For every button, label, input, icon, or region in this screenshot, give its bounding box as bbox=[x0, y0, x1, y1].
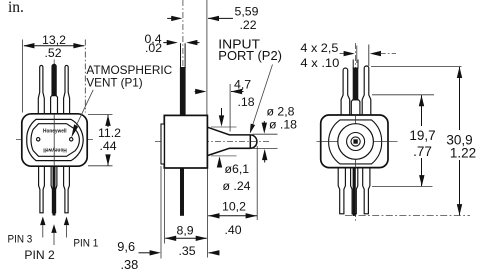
middle view dimension &#248;6,1 / &#248; .24 bbox=[211, 108, 251, 193]
right view bottom pin (right) bbox=[363, 168, 370, 214]
left view horizontal centerline bbox=[16, 138, 93, 140]
svg-text:10,2: 10,2 bbox=[222, 200, 246, 214]
middle view body bbox=[164, 115, 207, 168]
svg-text:PIN 1: PIN 1 bbox=[73, 238, 98, 250]
svg-text:ø 2,8: ø 2,8 bbox=[267, 105, 295, 119]
middle view dimension 0,4 / .02 bbox=[144, 32, 199, 55]
svg-text:9,6: 9,6 bbox=[117, 239, 135, 254]
right view small circle (port tube) bbox=[351, 137, 360, 146]
middle view mounting flange bbox=[161, 124, 164, 164]
middle view dimension 5,59 / .22 bbox=[167, 0, 258, 115]
middle view vent tube below body (dark) bbox=[180, 168, 184, 216]
svg-text:ø6,1: ø6,1 bbox=[225, 162, 250, 176]
pin 3 leader arrow bbox=[40, 217, 45, 238]
middle view dimension 8,9 / .35 bbox=[164, 169, 207, 258]
input port end cap bbox=[250, 135, 257, 148]
left view bottom pin 3 (left) bbox=[39, 166, 45, 213]
svg-text:ø .18: ø .18 bbox=[269, 118, 297, 132]
svg-text:PORT (P2): PORT (P2) bbox=[218, 49, 282, 63]
left view lid outer outline bbox=[27, 119, 83, 160]
right view dimension 30,9 / 1.22 bbox=[345, 67, 476, 216]
middle view vent tube (dark) bbox=[180, 67, 186, 116]
svg-text:.38: .38 bbox=[121, 257, 139, 272]
leader line ATMOSPHERIC VENT bbox=[76, 90, 93, 126]
pin 1 leader arrow bbox=[64, 217, 69, 238]
left view bottom pin 1 (right) bbox=[64, 166, 70, 213]
leader arrowhead at port bbox=[250, 124, 255, 134]
right view body outline bbox=[321, 115, 388, 168]
svg-text:5,59: 5,59 bbox=[235, 5, 259, 19]
svg-text:PIN 3: PIN 3 bbox=[8, 234, 33, 246]
svg-text:.22: .22 bbox=[240, 18, 257, 32]
right view bottom pin (left) bbox=[338, 168, 345, 214]
svg-text:4 x 2,5: 4 x 2,5 bbox=[300, 41, 338, 55]
leader line INPUT PORT (P2) bbox=[252, 65, 273, 129]
right view large circle (lid weld ring) bbox=[338, 124, 374, 160]
left view dimension 13,2 / .52 bbox=[23, 33, 86, 113]
svg-text:VENT (P1): VENT (P1) bbox=[86, 76, 142, 90]
label INPUT PORT (P2) bbox=[218, 37, 282, 63]
left view index hole (left) bbox=[37, 138, 40, 141]
middle view vent tube centerline bbox=[182, 0, 184, 66]
svg-text:in.: in. bbox=[8, 0, 24, 16]
left view top pin (right) bbox=[64, 65, 70, 113]
svg-text:4 x .10: 4 x .10 bbox=[300, 56, 339, 70]
right view dimension 4 x 2,5 / 4 x .10 bbox=[300, 41, 396, 70]
svg-text:.35: .35 bbox=[179, 244, 196, 258]
right view vertical centerline bbox=[355, 43, 357, 223]
left view body outline bbox=[22, 114, 87, 166]
svg-text:.77: .77 bbox=[413, 144, 432, 159]
leader arrow to vent hole P1 bbox=[71, 124, 78, 138]
svg-text:.18: .18 bbox=[238, 95, 255, 109]
svg-text:1.22: 1.22 bbox=[450, 146, 476, 161]
left view centerlines (inside body) bbox=[53, 114, 55, 166]
middle view dimension 4,7 / .18 bbox=[195, 77, 255, 131]
svg-text:Honeywell: Honeywell bbox=[43, 129, 67, 135]
pin 2 leader arrow bbox=[51, 224, 56, 245]
right view bottom vent pin (dark center) bbox=[351, 168, 358, 216]
label ATMOSPHERIC VENT (P1) bbox=[86, 63, 172, 90]
middle view dimension 9,6 / .38 bbox=[117, 166, 219, 272]
svg-text:.40: .40 bbox=[225, 223, 242, 237]
left view vertical centerline bbox=[53, 60, 55, 215]
left view atmospheric vent tube (top, dark) bbox=[51, 64, 58, 114]
middle view dimension 10,2 / .40 bbox=[207, 146, 257, 258]
svg-text:.52: .52 bbox=[44, 46, 61, 60]
svg-text:4,7: 4,7 bbox=[234, 77, 251, 91]
svg-text:Honeywell: Honeywell bbox=[43, 147, 67, 153]
middle view dimension &#248; 2,8 / &#248; .18 bbox=[253, 105, 298, 163]
right view dimension 19,7 / .77 bbox=[372, 95, 436, 187]
svg-text:.02: .02 bbox=[145, 41, 162, 55]
left view atmospheric vent hole P1 (right) bbox=[70, 138, 73, 141]
left view bottom pin 2 / vent tube (dark center) bbox=[51, 166, 57, 216]
right view port bore (dark) bbox=[353, 139, 357, 143]
left view top pin (left) bbox=[38, 65, 44, 113]
right view top pin (right) bbox=[362, 66, 371, 115]
middle view port centerline bbox=[155, 141, 270, 143]
right view crosshair inside body bbox=[321, 115, 388, 168]
right view top pin (left) bbox=[341, 68, 350, 115]
right view lid outline bbox=[329, 120, 382, 164]
svg-text:.44: .44 bbox=[100, 139, 117, 153]
right view horizontal centerline bbox=[317, 141, 398, 143]
input port cone and tube bbox=[207, 127, 250, 155]
left view dimension 11.2 / .44 bbox=[88, 114, 121, 165]
svg-text:19,7: 19,7 bbox=[409, 128, 435, 143]
svg-text:8,9: 8,9 bbox=[177, 224, 194, 238]
svg-text:13,2: 13,2 bbox=[42, 33, 66, 47]
left view lid inner outline bbox=[31, 124, 79, 157]
right view medium circle (port base) bbox=[347, 133, 365, 151]
svg-text:ø .24: ø .24 bbox=[223, 179, 251, 193]
middle view vent tube tip (thin walls) bbox=[181, 43, 186, 68]
right view vent tube (top, dark) bbox=[351, 60, 360, 116]
svg-text:PIN 2: PIN 2 bbox=[24, 248, 55, 262]
